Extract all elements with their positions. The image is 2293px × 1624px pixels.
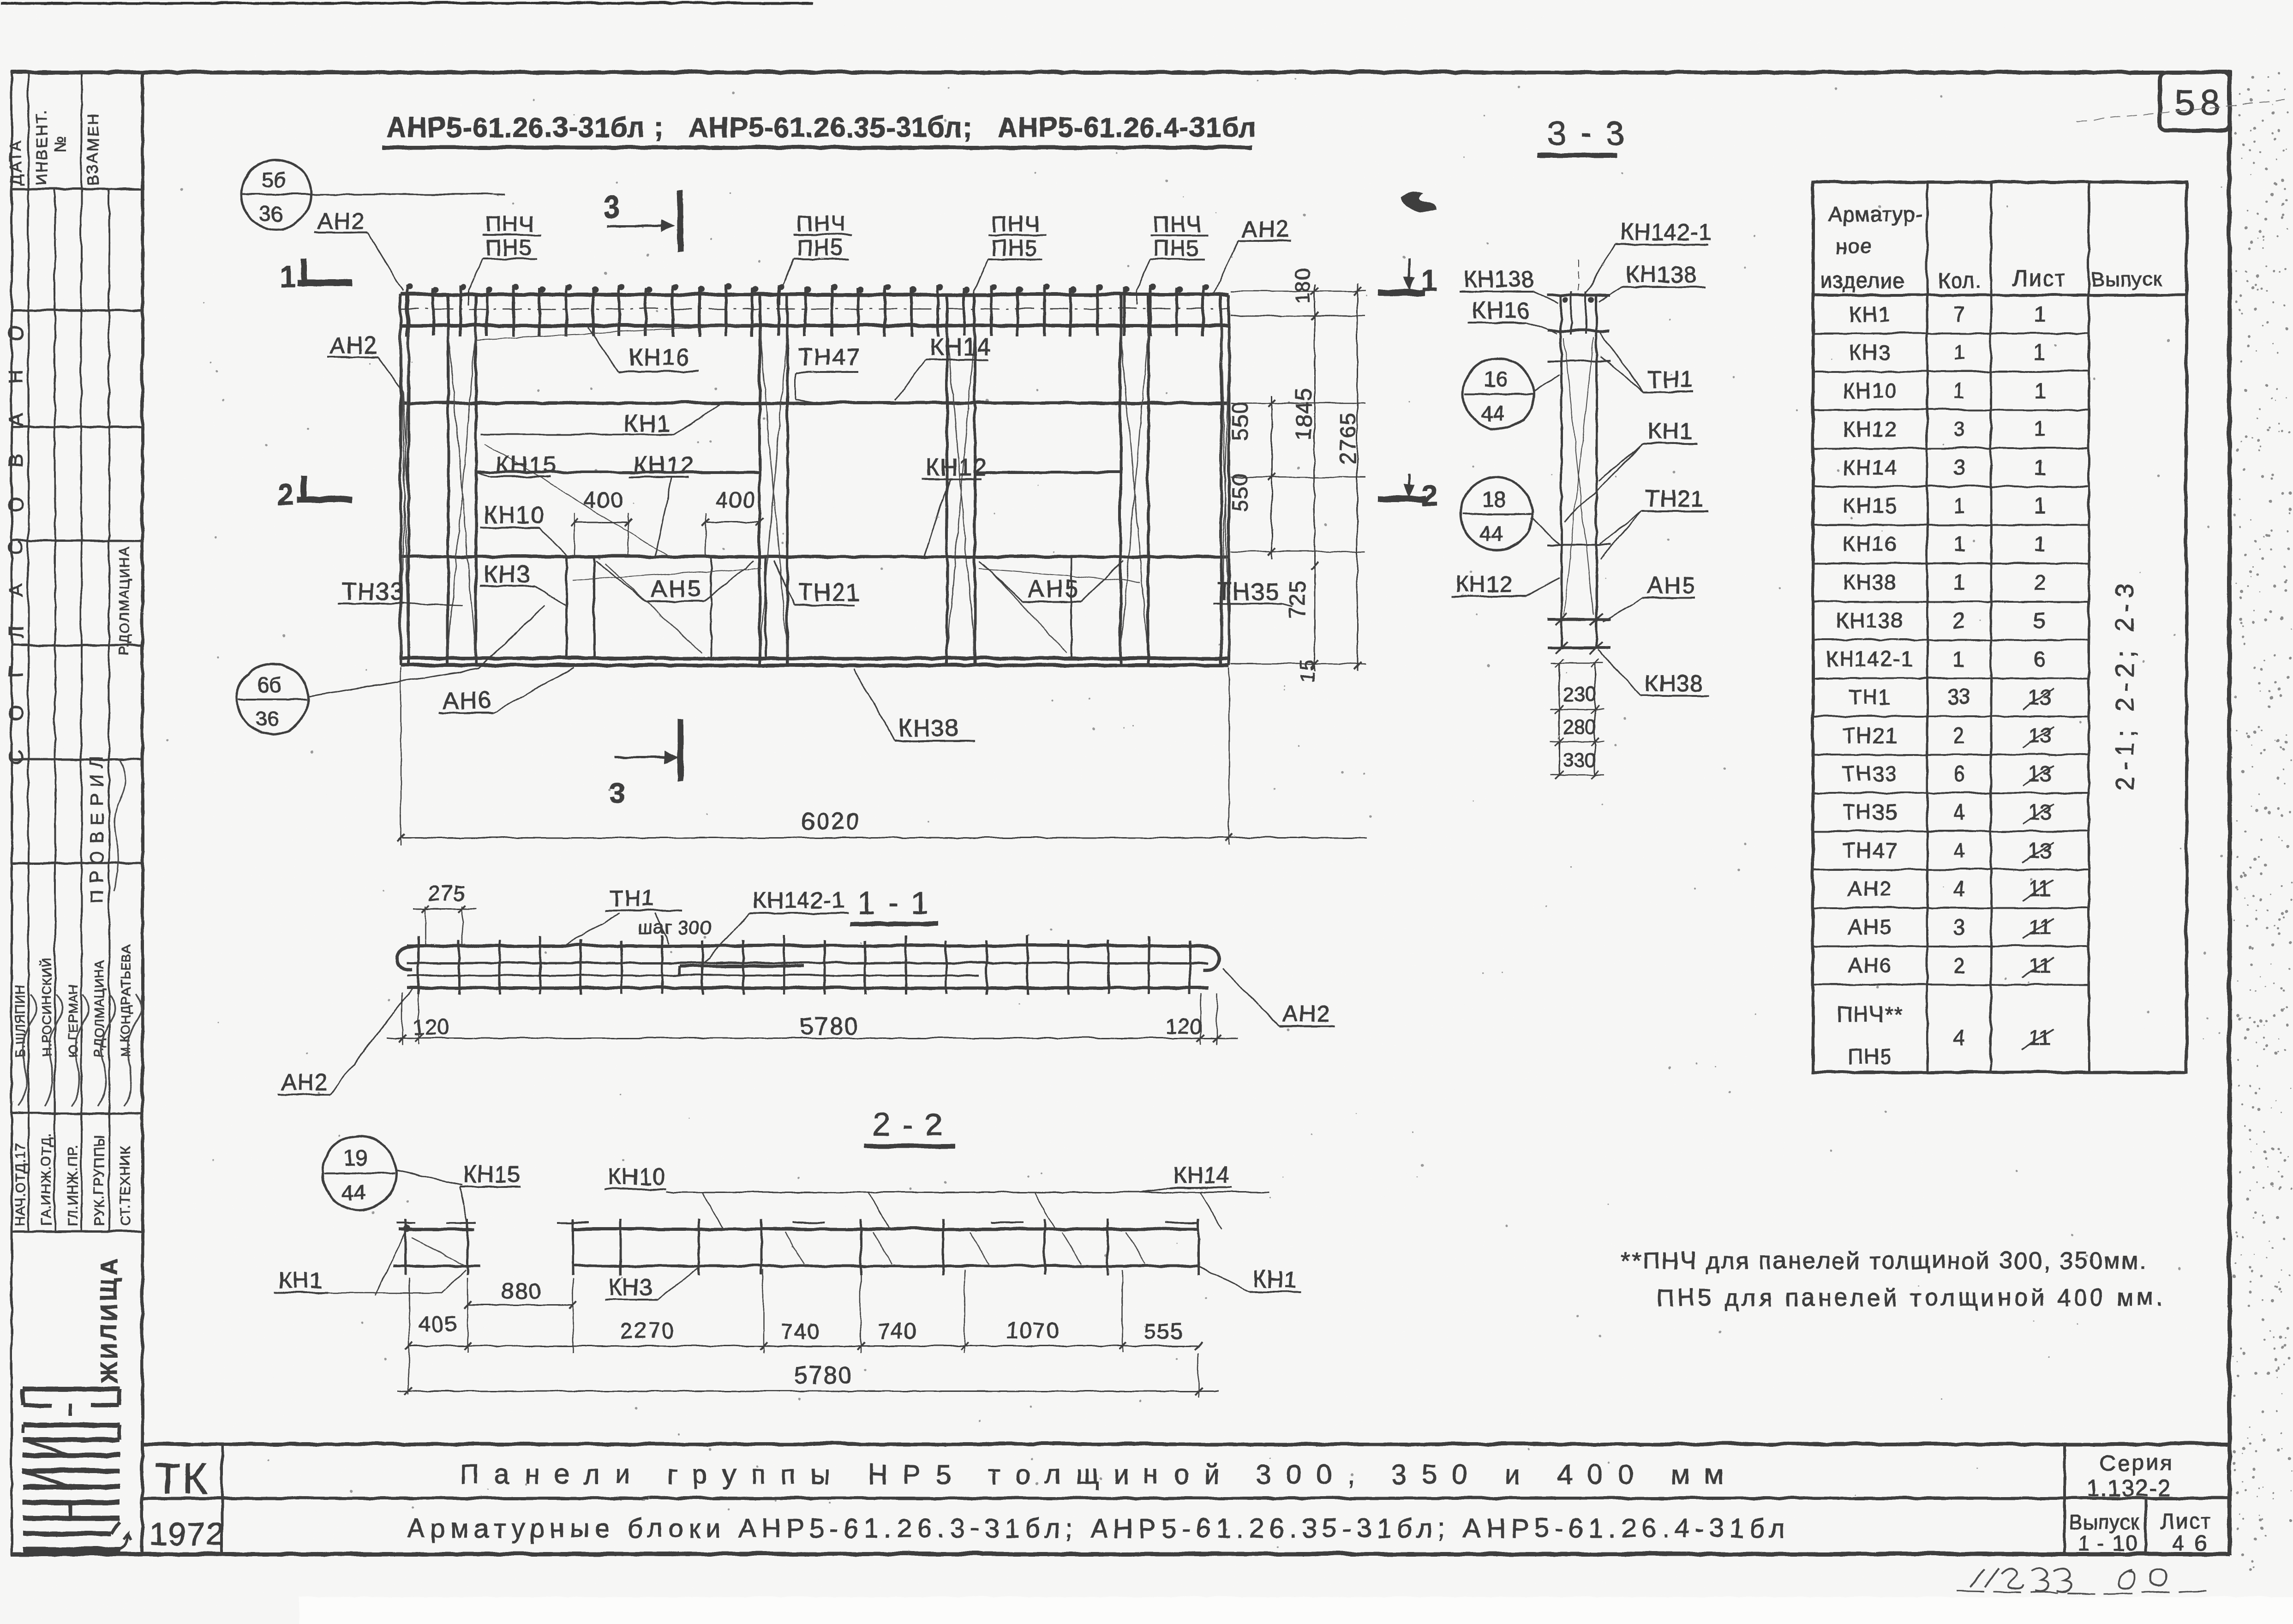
window mesh verticals (710, 556, 712, 658)
ext lines right (1230, 290, 1365, 292)
title block top line (142, 1442, 2229, 1445)
КН3 narrow box (566, 556, 593, 658)
stray diagonals in panel (scan) (475, 323, 757, 339)
sidebar column lines (27, 72, 29, 1231)
2-2 cage diagonal (411, 1237, 464, 1264)
2-2 main beam (572, 1227, 1198, 1230)
frame top border (10, 70, 2229, 74)
panel bottom chord bar lower (400, 663, 1228, 666)
frame bottom border (10, 1552, 2229, 1556)
panel mid bar segment right (974, 470, 1120, 473)
bottom dim 6020 (400, 667, 401, 845)
frame inner-left border (140, 72, 144, 1553)
section mark 1 right (1407, 258, 1410, 285)
panel top chord bar lower (400, 323, 1228, 327)
faint diagonal scan crease through 58 box (2077, 98, 2291, 121)
vertical leader down left edge (402, 391, 408, 508)
dim line 180/1845/725/15 (1313, 283, 1315, 670)
1-1 beam ticks (418, 935, 1189, 994)
handwritten 12633 50 (1970, 1567, 2166, 1591)
1-1 beam horizontals (406, 944, 1207, 947)
Серия cell divider (2062, 1444, 2065, 1553)
label circle 19/44 (322, 1135, 395, 1209)
КН10/КН14 leader bar (665, 1191, 1269, 1193)
leader from 6б/36 (306, 605, 545, 696)
2-2 top stubs (556, 1221, 588, 1223)
3-3 dark scribble mark (1401, 191, 1436, 211)
3-3 bottom cage (1547, 617, 1610, 620)
callout circle 5б/36 (240, 159, 311, 229)
title block mid line (142, 1496, 2229, 1499)
right edge speckle band (2232, 72, 2293, 1570)
2-2 cage diagonals (784, 1231, 804, 1264)
ТК cell divider (220, 1444, 223, 1553)
panel window-top bar (400, 555, 1228, 558)
panel cage columns verticals (400, 294, 408, 665)
callout circle 18/44 (1460, 477, 1532, 549)
sidebar row lines (11, 71, 142, 73)
page number box 58 (2159, 72, 2229, 130)
leader from 5б/36 (310, 193, 504, 195)
3-3 member right vertical (1595, 293, 1597, 647)
3-3 dim boxes 230/280/330 (1558, 662, 1559, 775)
top scan edge line (0, 1, 812, 4)
2-2 dim 5780 (408, 1352, 409, 1394)
3-3 mid ticks (1547, 360, 1610, 361)
panel bottom chord bar upper (400, 656, 1228, 659)
logo arrow (116, 1533, 131, 1549)
table data rows (1812, 301, 2088, 333)
table header row line (1812, 293, 2186, 296)
3-3 underline (1537, 152, 1617, 157)
table outer box (1812, 181, 2186, 1072)
1-1 right hook (1200, 945, 1218, 969)
frame right border (2227, 69, 2231, 1554)
panel top chord bar upper (400, 292, 1228, 296)
2-2 beam ticks (572, 1218, 1198, 1275)
1-1 left hook (396, 945, 415, 969)
panel bar КН1 level (400, 401, 1228, 404)
section mark 2 right (1407, 473, 1410, 491)
dim line 550/550 (1271, 395, 1272, 558)
2-2 dim row 2270/740/740/1070/555 (408, 1345, 1198, 1346)
2-2 left cage (398, 1227, 474, 1230)
callout circle 16/44 (1462, 358, 1533, 429)
top chord centerline dash-dot (400, 308, 1228, 309)
top chord tie bars ТН1 (406, 283, 1208, 336)
sidebar signatures row (18, 994, 36, 1105)
Выпуск/Лист divider (2143, 1498, 2146, 1553)
3-3 top cage (1547, 293, 1610, 296)
labels ПНЧ/ПН5 x4 (468, 211, 540, 305)
title underline (381, 145, 1251, 149)
table column lines (1926, 181, 1928, 1072)
1-1 КН142-1 inner bar (679, 964, 803, 967)
sheet outer left edge (10, 70, 12, 1554)
3-3 member centerline dash above (1577, 258, 1578, 293)
panel mid bar segment left (475, 470, 759, 473)
window lintel box left АН5 (566, 556, 765, 658)
1-1 dims 120/5780/120 (401, 992, 402, 1044)
callout circle 6б/36 (236, 663, 307, 734)
dim line 2765 (1356, 283, 1358, 670)
3-3 inner X bracing (1563, 337, 1593, 614)
window lintel box right АН5 (946, 556, 1148, 658)
3-3 member left vertical (1560, 293, 1562, 647)
sidebar signature squiggle (113, 759, 125, 891)
